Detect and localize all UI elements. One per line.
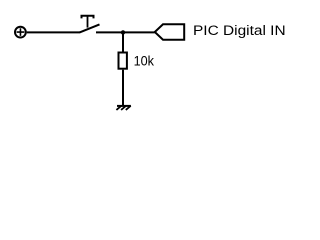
svg-text:10k: 10k	[134, 53, 155, 69]
wire from terminal to switch	[27, 31, 80, 33]
switch lever	[80, 24, 100, 32]
switch actuator T-bar	[82, 16, 94, 19]
terminal +V	[15, 27, 26, 38]
ground	[116, 106, 130, 110]
wire junction to resistor	[122, 32, 124, 52]
wire resistor to ground	[122, 70, 124, 106]
junction node	[121, 30, 125, 34]
pushbutton switch SW1	[80, 16, 100, 33]
svg-text:PIC Digital IN: PIC Digital IN	[193, 23, 286, 39]
tag connector PIC Digital IN	[155, 24, 184, 39]
switch actuator stem	[87, 16, 89, 28]
wire from switch to tag	[96, 31, 155, 33]
resistor R1	[119, 53, 127, 69]
